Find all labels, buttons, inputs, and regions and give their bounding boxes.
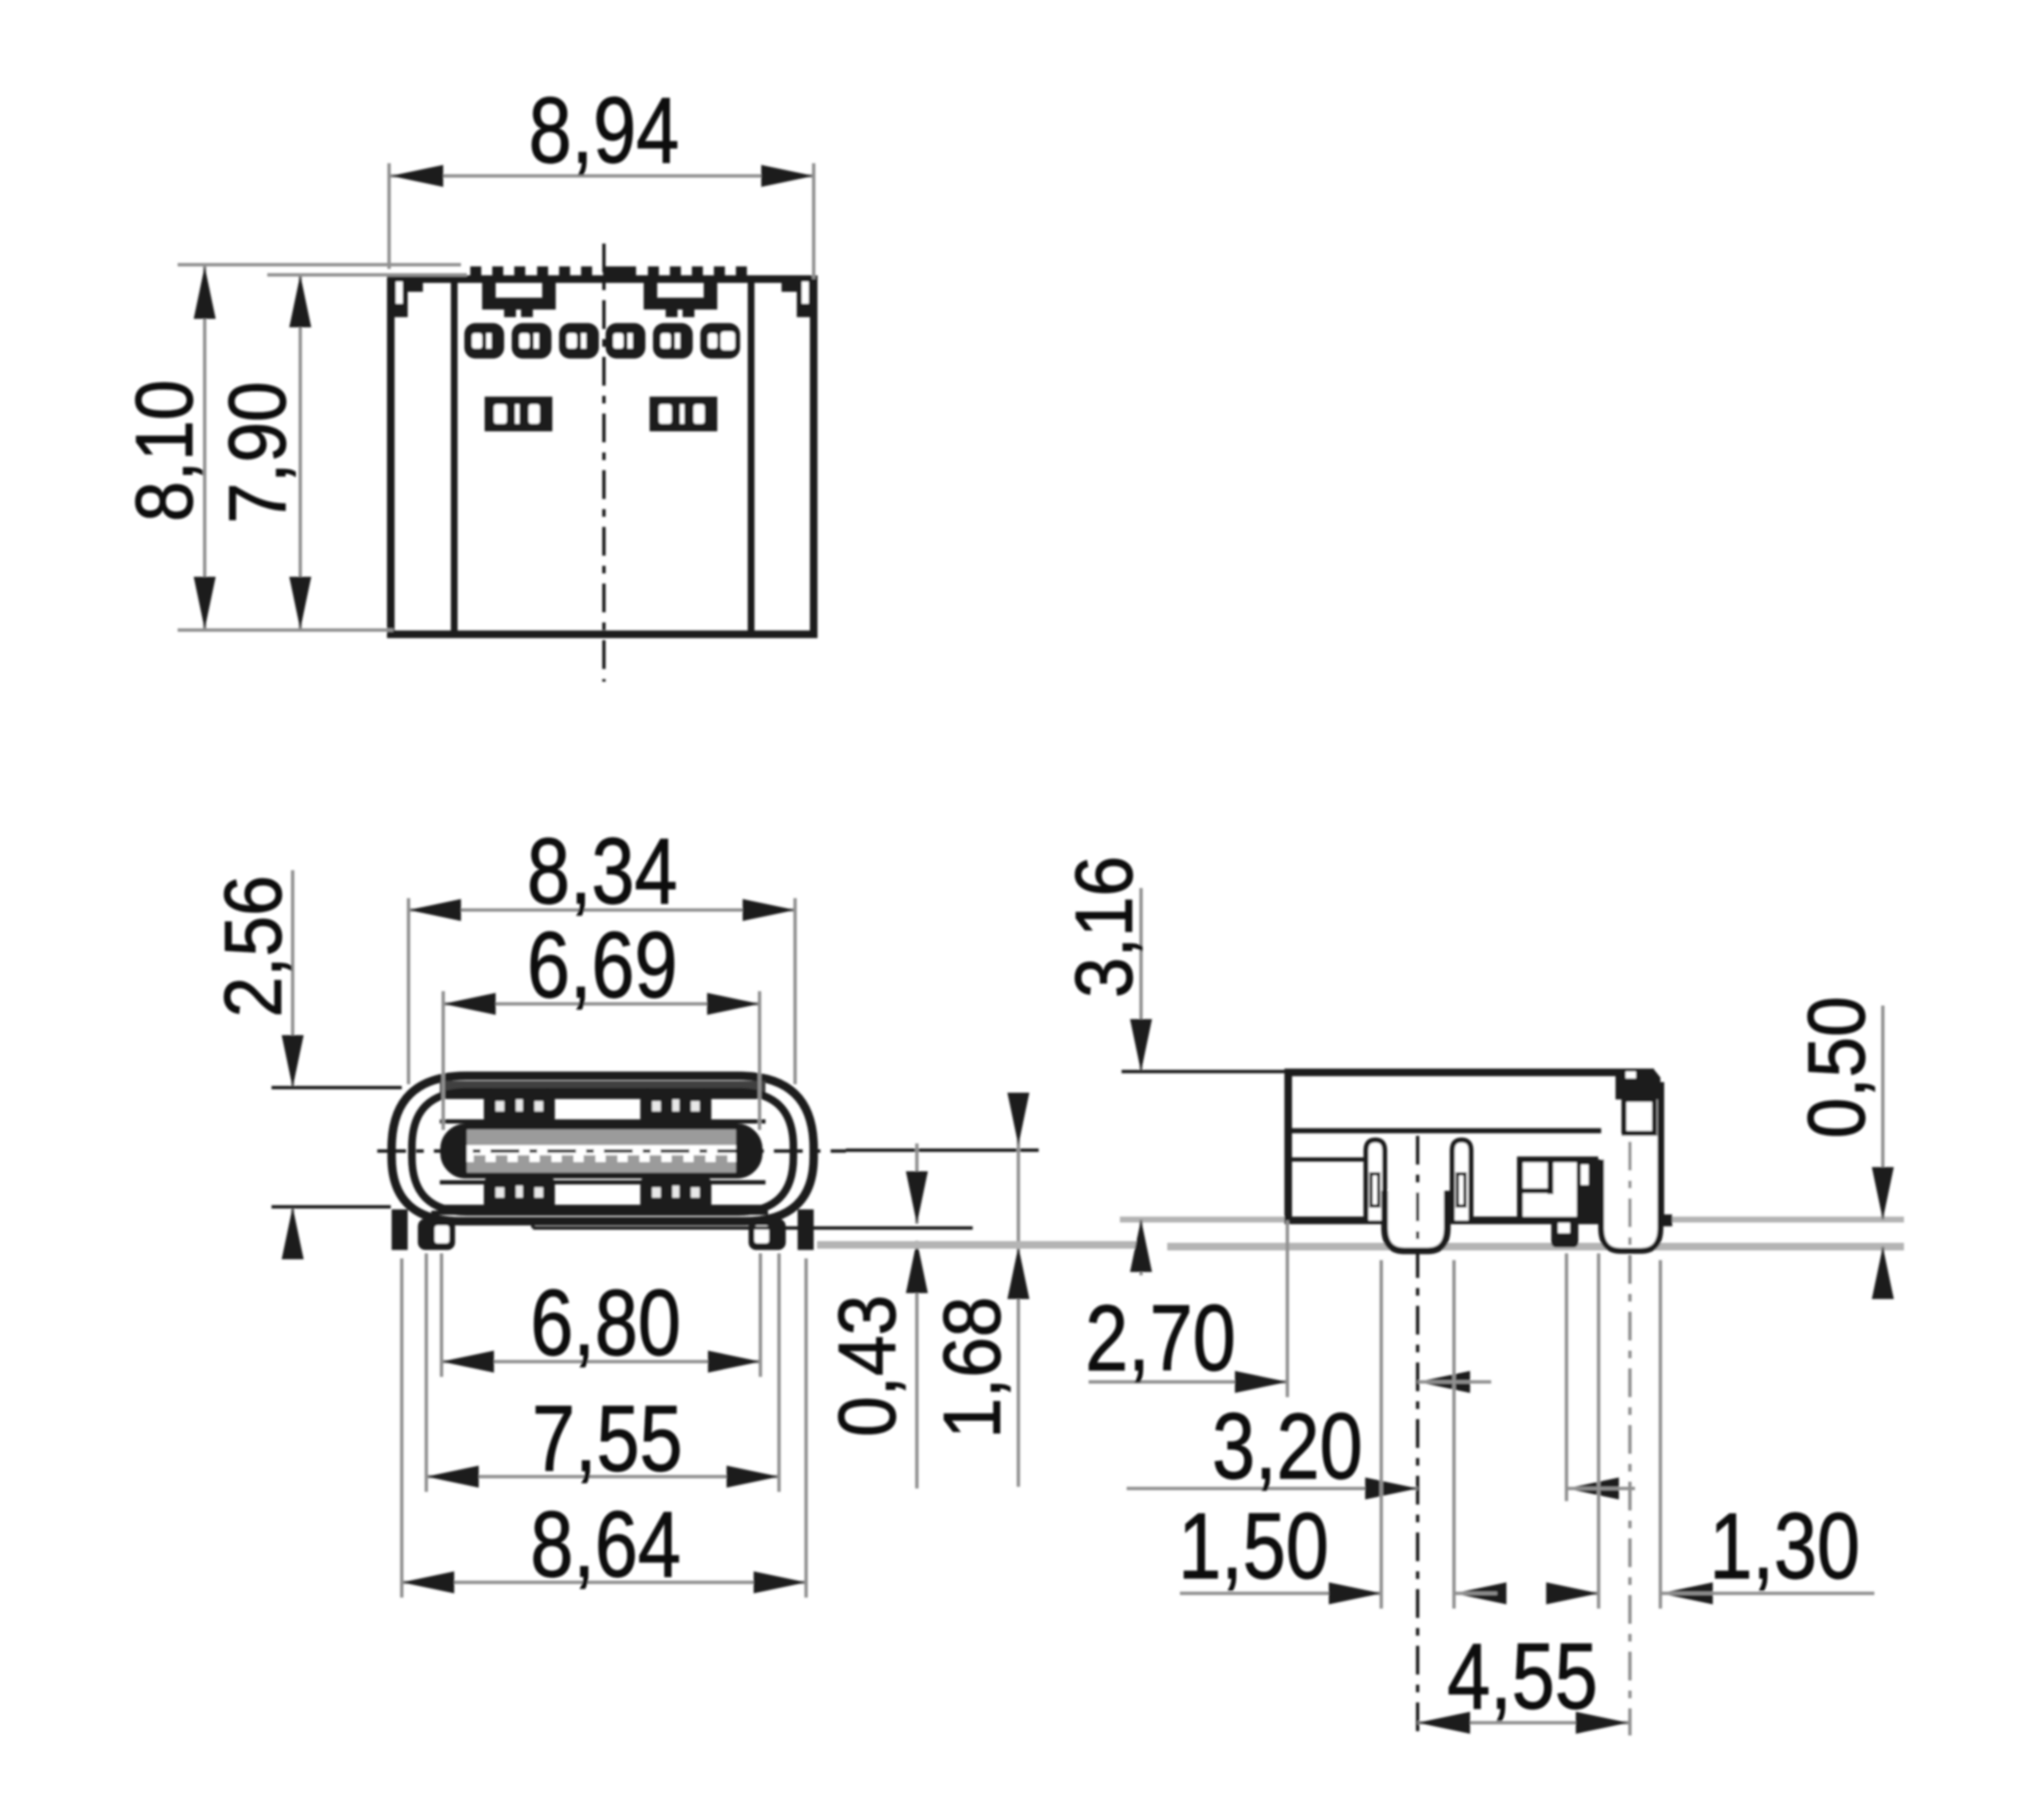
front view shell bottom lip line bbox=[431, 1211, 768, 1215]
through-hole lead bottom line B (front view span) bbox=[817, 1242, 1142, 1249]
front view tongue (contact tab) bbox=[443, 1127, 760, 1176]
svg-text:2,70: 2,70 bbox=[1085, 1286, 1236, 1390]
extension line top 2,56 bbox=[272, 1086, 402, 1089]
svg-text:8,34: 8,34 bbox=[527, 820, 678, 924]
extension line shell bottom 0,43 bbox=[533, 1226, 973, 1230]
svg-text:7,55: 7,55 bbox=[532, 1387, 683, 1491]
top view body outline bbox=[391, 279, 814, 634]
top view top-right corner clip bbox=[782, 279, 814, 317]
dimension 8,64 (overall width) bbox=[402, 1258, 806, 1598]
dimension 1,30 (clip leg hole width) bbox=[1546, 1253, 1874, 1609]
extension line clip leg left bbox=[1597, 1253, 1600, 1609]
extension line left 7,55 bbox=[425, 1253, 428, 1492]
top view top-left corner clip bbox=[391, 279, 423, 317]
svg-text:8,10: 8,10 bbox=[119, 380, 210, 522]
extension line body left edge bbox=[1286, 1220, 1289, 1397]
extension line bottom 2,56 bbox=[272, 1205, 391, 1209]
front view tongue left tip bbox=[443, 1127, 467, 1176]
extension line left 6,80 bbox=[440, 1253, 443, 1377]
svg-text:1,50: 1,50 bbox=[1178, 1494, 1329, 1598]
side view front contact pin bbox=[1366, 1140, 1385, 1220]
front view horizontal centerline bbox=[377, 1149, 846, 1153]
dimension 7,90 (top view body height) bbox=[212, 275, 467, 629]
seating plane line A bbox=[1120, 1217, 1904, 1223]
front view shell window lines bottom bbox=[440, 1181, 765, 1185]
extension line right 8,64 bbox=[804, 1258, 808, 1598]
front view shell top dark band bbox=[440, 1081, 765, 1093]
svg-text:8,94: 8,94 bbox=[529, 79, 679, 183]
side view: connector seen from the side bbox=[1288, 1069, 1672, 1735]
front view top left contact spring cluster bbox=[484, 1089, 555, 1127]
dimension 1,68 (centerline to seating plane) bbox=[927, 1093, 1029, 1487]
side view body outline bbox=[1288, 1072, 1660, 1220]
svg-text:8,64: 8,64 bbox=[530, 1493, 681, 1597]
extension line right 7,55 bbox=[777, 1253, 781, 1492]
extension line top 3,16 bbox=[1122, 1070, 1288, 1073]
side view SMT contact structure bbox=[1520, 1159, 1595, 1220]
top view vertical centerline bbox=[602, 244, 606, 682]
svg-text:4,55: 4,55 bbox=[1447, 1625, 1598, 1729]
svg-text:0,43: 0,43 bbox=[822, 1295, 913, 1437]
front view tongue contact strip bbox=[467, 1145, 736, 1162]
dimension 3,20 (shield leg center to SMT pad) bbox=[1127, 1395, 1635, 1499]
top view left inner wall bbox=[451, 282, 458, 632]
extension line right 8,34 bbox=[793, 898, 797, 1084]
extension line shield leg right bbox=[1452, 1260, 1456, 1609]
side view left window top edge bbox=[1288, 1158, 1366, 1162]
top view right spring bracket cut-out bbox=[644, 282, 717, 317]
top view left spring bracket cut-out bbox=[482, 282, 556, 317]
front view outer shell bbox=[392, 1076, 814, 1221]
dimension 6,69 (tongue width) bbox=[443, 913, 760, 1130]
front view right foot bbox=[749, 1219, 786, 1250]
front view right side tab bbox=[798, 1209, 814, 1250]
side view shield leg centerline bbox=[1416, 1136, 1419, 1735]
centerline extension to 1,68 dimension bbox=[846, 1148, 1039, 1152]
front view bottom right contact spring cluster bbox=[640, 1176, 711, 1213]
svg-text:3,16: 3,16 bbox=[1059, 856, 1149, 998]
side view top right shading bbox=[1619, 1072, 1650, 1083]
side view retention clip head bbox=[1616, 1069, 1660, 1099]
extension line right 6,69 bbox=[758, 991, 761, 1130]
dimension 8,34 (shell width) bbox=[409, 820, 795, 1084]
side view rear contact pin bbox=[1452, 1140, 1471, 1220]
extension line top 7,90 bbox=[267, 273, 467, 277]
front view shell window lines top bbox=[440, 1095, 765, 1099]
extension line left 6,69 bbox=[442, 991, 445, 1130]
dimension 7,55 bbox=[426, 1253, 779, 1492]
extension line top 8,10 bbox=[178, 263, 461, 266]
extension line shield leg left bbox=[1380, 1260, 1383, 1609]
dimension 0,50 (seating plane to lead bottom) bbox=[1791, 996, 1894, 1299]
front view tongue right tip bbox=[736, 1127, 760, 1176]
svg-text:1,68: 1,68 bbox=[927, 1296, 1018, 1439]
dimension 8,10 (top view overall height) bbox=[119, 265, 461, 630]
through-hole lead bottom line B (side view span) bbox=[1167, 1243, 1904, 1251]
side view retention clip leg bbox=[1601, 1086, 1660, 1251]
extension line left 8,94 bbox=[387, 163, 391, 269]
front view inner shell wall bbox=[412, 1092, 793, 1212]
top view right rectangular slot bbox=[650, 397, 717, 431]
dimension 0,43 (shell bottom to seating plane) bbox=[533, 1143, 973, 1488]
extension line right 6,80 bbox=[759, 1253, 762, 1377]
dimension 4,55 (leg centers distance) bbox=[1418, 1253, 1628, 1734]
front view bottom left contact spring cluster bbox=[484, 1176, 555, 1213]
top view row of six contact slots bbox=[464, 323, 504, 359]
svg-text:1,30: 1,30 bbox=[1709, 1494, 1860, 1598]
side view shield through-hole leg (U shape) bbox=[1385, 1191, 1447, 1251]
dimension 1,50 (shield leg hole width) bbox=[1178, 1260, 1506, 1609]
top view: connector seen from above bbox=[391, 244, 814, 682]
extension line right 8,94 bbox=[812, 163, 815, 279]
dimension 8,94 (top view width) bbox=[389, 79, 814, 279]
front view left foot bbox=[418, 1219, 455, 1250]
top view contact teeth row bbox=[470, 266, 481, 282]
dimension 2,70 (body edge to shield leg center) bbox=[1085, 1220, 1491, 1397]
extension line bottom 8,10 bbox=[178, 628, 393, 632]
front view top right contact spring cluster bbox=[640, 1089, 711, 1127]
side view clip leg centerline bbox=[1628, 1142, 1632, 1735]
top view left rectangular slot bbox=[485, 397, 552, 431]
bottom plate step bbox=[531, 1221, 535, 1228]
top view right inner wall bbox=[748, 282, 754, 632]
svg-text:6,69: 6,69 bbox=[527, 913, 678, 1017]
svg-text:3,20: 3,20 bbox=[1212, 1395, 1363, 1499]
svg-text:7,90: 7,90 bbox=[212, 381, 303, 524]
svg-text:0,50: 0,50 bbox=[1791, 996, 1882, 1138]
extension line left 8,34 bbox=[407, 898, 410, 1084]
side view shell bottom edge bbox=[1288, 1128, 1601, 1133]
svg-text:2,56: 2,56 bbox=[208, 875, 299, 1017]
side view right nub at seating plane bbox=[1660, 1214, 1672, 1226]
dimension 2,56 (shell height) bbox=[208, 870, 402, 1259]
front view: mating face of USB-C receptacle bbox=[377, 1076, 1039, 1250]
extension line clip leg right bbox=[1659, 1260, 1662, 1609]
svg-text:6,80: 6,80 bbox=[530, 1271, 681, 1375]
extension line SMT pad center bbox=[1565, 1253, 1568, 1501]
dimension 3,16 (body top to seating plane) bbox=[1059, 856, 1288, 1275]
front view left side tab bbox=[392, 1209, 408, 1250]
dimension 6,80 (feet span) bbox=[442, 1253, 760, 1377]
extension line left 8,64 bbox=[400, 1258, 403, 1598]
side view SMT solder foot bbox=[1551, 1219, 1578, 1247]
